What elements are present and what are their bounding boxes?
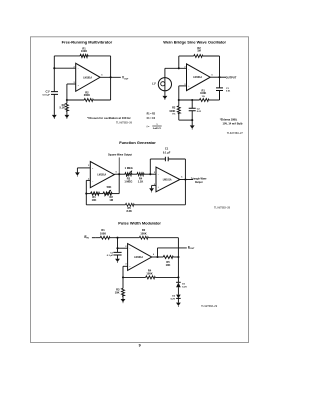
resistor R1: [80, 54, 88, 57]
svg-text:3: 3: [125, 263, 126, 265]
svg-text:1%: 1%: [202, 96, 205, 98]
node feedback bottom right: [177, 276, 179, 278]
svg-text:10V, 14 mA Bulb: 10V, 14 mA Bulb: [223, 121, 243, 125]
svg-text:C1 = C2: C1 = C2: [147, 118, 156, 120]
wire divider row middle: [100, 193, 104, 195]
svg-text:1M: 1M: [197, 49, 201, 53]
ground under R3: [65, 115, 70, 119]
resistor R1 bottom: [199, 99, 209, 102]
wire loop right vertical: [184, 180, 186, 205]
potentiometer R2 50K: [103, 185, 113, 202]
node feedback bottom left: [66, 99, 68, 101]
svg-text:OUTPUT: OUTPUT: [226, 76, 237, 80]
wire output lead: [152, 256, 164, 258]
svg-text:1.1K: 1.1K: [138, 179, 144, 183]
svg-text:R1 = R2: R1 = R2: [147, 113, 156, 115]
wire loop bottom left segment: [86, 204, 125, 206]
svg-text:Pulse Width Modulator: Pulse Width Modulator: [118, 221, 161, 226]
svg-text:1 MEG: 1 MEG: [124, 179, 132, 183]
svg-text:8.2K: 8.2K: [126, 209, 132, 213]
capacitor C2 shunt: [189, 100, 202, 120]
wire plus input: [54, 67, 75, 69]
resistor R2 top: [194, 55, 203, 58]
wire output: [210, 76, 226, 78]
resistor R4: [146, 276, 156, 279]
wire R2 to right corner: [148, 237, 178, 239]
node right vertical output junction: [177, 256, 179, 258]
svg-text:LM101A: LM101A: [97, 174, 106, 177]
svg-text:100K: 100K: [81, 49, 87, 53]
wire R1 to summing node: [95, 237, 139, 239]
wire summing node down: [117, 238, 119, 249]
wire plus input: [77, 167, 90, 169]
wire lamp bottom lead: [164, 91, 166, 96]
ground under C1: [52, 115, 57, 119]
node summing tee: [116, 237, 118, 239]
svg-text:6.2V: 6.2V: [171, 298, 176, 300]
svg-text:6: 6: [116, 172, 117, 174]
wire A1 output: [114, 173, 125, 175]
node output junction: [110, 76, 112, 78]
wire plus ground stem A2: [151, 185, 153, 188]
node minus input tee: [116, 247, 118, 249]
wire right vertical lower: [219, 91, 221, 101]
wire minus down through row to bottom loop: [85, 180, 87, 204]
node capacitor C2 tee: [191, 99, 193, 101]
node A2 output junction: [184, 178, 186, 180]
wire between pots: [132, 173, 137, 175]
svg-text:6: 6: [101, 74, 102, 76]
svg-text:6: 6: [153, 254, 154, 256]
resistor R1: [100, 236, 110, 239]
svg-text:0.1 µF: 0.1 µF: [107, 255, 114, 257]
wire minus input: [118, 247, 128, 249]
svg-text:10K: 10K: [166, 263, 171, 267]
svg-text:R1: R1: [101, 228, 105, 232]
wire feedback left vertical: [149, 159, 151, 174]
wire inverting input down to node: [66, 84, 68, 100]
svg-text:LM101A: LM101A: [193, 76, 202, 79]
wire top rail left segment: [54, 55, 80, 57]
wire right vertical feedback: [110, 56, 112, 100]
svg-text:Square Wave Output: Square Wave Output: [108, 154, 132, 157]
wire top rail right segment: [203, 55, 220, 57]
svg-text:6.2V: 6.2V: [182, 286, 187, 288]
wire bottom right corner up: [219, 91, 221, 101]
wire divider up to output: [118, 174, 120, 193]
svg-text:L1*: L1*: [152, 81, 156, 85]
svg-text:5.1K: 5.1K: [60, 106, 66, 110]
svg-text:C1: C1: [165, 146, 169, 150]
svg-text:0.1 µF: 0.1 µF: [163, 150, 171, 154]
wire loop bottom right segment: [134, 204, 185, 206]
capacitor C1: [107, 248, 122, 257]
wire right vertical upper: [219, 56, 221, 88]
wire capacitor to ground: [53, 94, 55, 115]
wire output tap up: [157, 248, 159, 257]
ground under R3: [121, 299, 126, 303]
node integrator summing: [149, 173, 151, 175]
wire A2 output: [180, 179, 193, 181]
wire noninverting input: [179, 85, 187, 87]
capacitor C1 series: [216, 88, 231, 93]
svg-text:100K: 100K: [169, 109, 175, 113]
wire lamp top lead: [164, 68, 166, 77]
node output tap: [156, 256, 158, 258]
wire divider row right: [112, 193, 119, 195]
wire feedback bottom right segment: [155, 276, 178, 278]
svg-text:3: 3: [88, 165, 89, 167]
wire bottom rail left segment: [179, 99, 200, 101]
wire minus input: [86, 179, 90, 181]
potentiometer R3 1 MEG: [124, 166, 132, 184]
svg-text:1M: 1M: [109, 198, 113, 202]
wire plus input A2: [152, 184, 156, 186]
svg-text:100K: 100K: [146, 271, 152, 275]
svg-text:LM101A: LM101A: [163, 178, 172, 181]
op-amp A1 LM101A: [88, 162, 117, 188]
resistor R2 shunt vertical: [169, 100, 180, 120]
node divider row left: [85, 193, 87, 195]
svg-text:TL/H/7383–27: TL/H/7383–27: [227, 132, 244, 135]
ground under diodes: [176, 303, 181, 307]
svg-text:*Chosen for oscillation at 100: *Chosen for oscillation at 100 Hz: [87, 116, 131, 120]
wire noninverting down to bottom rail: [178, 86, 180, 100]
wire plus input down: [122, 266, 124, 288]
svg-text:2: 2: [125, 246, 126, 248]
node A1 output junction: [118, 173, 120, 175]
node feedback bottom tee: [122, 276, 124, 278]
op-amp U2 LM101A: [184, 64, 212, 91]
svg-text:LM101A: LM101A: [134, 256, 143, 259]
wire right vertical: [177, 238, 179, 283]
node inverting input tee: [178, 67, 180, 69]
svg-text:Triangle Wave: Triangle Wave: [191, 178, 207, 180]
wire plus input: [123, 265, 128, 267]
svg-text:Function Generator: Function Generator: [119, 140, 156, 145]
wire feedback bottom left segment: [123, 276, 146, 278]
ground under C1: [115, 259, 120, 263]
wire inverting input: [67, 83, 76, 85]
wire feedback top left segment: [150, 158, 165, 160]
ground under lamp: [163, 96, 168, 100]
svg-text:TL/H/7383–28: TL/H/7383–28: [214, 207, 231, 210]
resistor R3 vertical: [60, 100, 69, 115]
zener diode D1: [176, 282, 187, 288]
op-amp U4 LM101A: [125, 244, 154, 271]
svg-text:6: 6: [181, 176, 182, 178]
resistor R5: [125, 203, 134, 206]
svg-text:LM101A: LM101A: [83, 76, 92, 79]
wire plus ground stem: [76, 168, 78, 173]
ground under shunt network: [190, 125, 195, 129]
wire output: [100, 76, 121, 78]
wire D2 to ground: [177, 298, 179, 302]
wire C1 to ground: [117, 255, 119, 259]
resistor R3 vertical: [115, 288, 125, 299]
node shunt ground tee: [191, 119, 193, 121]
wire bottom rail left segment: [67, 99, 84, 101]
wire ground stem: [191, 120, 193, 125]
svg-text:TL/H/7383–26: TL/H/7383–26: [116, 121, 133, 124]
resistor R2: [84, 99, 93, 102]
op-amp A2 LM101A: [154, 167, 182, 192]
svg-text:100K: 100K: [140, 232, 146, 236]
wire top left vertical: [178, 56, 180, 68]
svg-text:Free-Running Multivibrator: Free-Running Multivibrator: [62, 39, 113, 44]
svg-text:50K: 50K: [107, 185, 112, 189]
svg-text:0.01 µF: 0.01 µF: [42, 94, 50, 96]
wire divider row lead: [86, 193, 90, 195]
svg-text:Wein Bridge Sine Wave Oscillat: Wein Bridge Sine Wave Oscillator: [163, 39, 226, 44]
svg-text:*Eldema 1869,: *Eldema 1869,: [220, 118, 238, 122]
lamp L1: [152, 78, 172, 91]
svg-text:10K: 10K: [115, 291, 120, 295]
wire left vertical: [53, 56, 55, 92]
svg-text:6: 6: [212, 74, 213, 76]
ground at A1 plus input: [75, 172, 80, 176]
svg-text:R2: R2: [142, 228, 146, 232]
wire bottom rail right segment: [209, 99, 220, 101]
svg-text:1 MEG: 1 MEG: [125, 166, 133, 170]
svg-text:100K: 100K: [100, 232, 106, 236]
op-amp U1 LM101A: [74, 63, 103, 91]
resistor R5: [163, 256, 173, 259]
wire minus input A2: [150, 173, 156, 175]
wire feedback top right segment: [168, 158, 185, 160]
wire top rail left segment: [179, 55, 194, 57]
wire inverting input: [165, 67, 187, 69]
svg-text:2: 2: [154, 172, 155, 174]
svg-text:9: 9: [139, 343, 141, 347]
svg-text:2πR1C1: 2πR1C1: [153, 128, 162, 130]
zener diode D2: [171, 295, 181, 301]
wire output tap across: [158, 247, 187, 249]
svg-text:C1*: C1*: [45, 89, 49, 93]
wire R5 to right vertical: [173, 256, 178, 258]
svg-text:TL/H/7383–29: TL/H/7383–29: [201, 305, 218, 308]
capacitor C1 feedback: [163, 146, 171, 161]
ground at A2 plus input: [149, 188, 154, 192]
wire top rail right segment: [88, 55, 111, 57]
node at noninverting input tee: [53, 67, 55, 69]
wire bottom rail right segment: [93, 99, 110, 101]
svg-text:100K: 100K: [200, 91, 206, 95]
node bottom left: [178, 99, 180, 101]
capacitor C1: [42, 89, 58, 96]
resistor R4: [137, 173, 144, 184]
svg-text:2: 2: [184, 66, 185, 68]
wire input lead: [92, 237, 95, 239]
svg-text:2: 2: [74, 66, 75, 68]
svg-text:Output: Output: [195, 181, 203, 184]
svg-text:360K: 360K: [84, 93, 90, 97]
resistor R1: [91, 192, 100, 195]
wire between diodes: [177, 287, 179, 294]
svg-text:10K: 10K: [92, 198, 97, 202]
resistor R2: [139, 236, 148, 239]
page border frame: [31, 37, 249, 343]
svg-text:1%: 1%: [172, 114, 175, 116]
wire shunt bottom rail: [179, 119, 193, 121]
wire label pointer: [118, 157, 120, 174]
wire feedback right vertical: [184, 159, 186, 180]
node output junction: [218, 76, 220, 78]
wire R4 to integrator: [144, 173, 150, 175]
formula f = 1/2piR1C1: [147, 124, 162, 130]
